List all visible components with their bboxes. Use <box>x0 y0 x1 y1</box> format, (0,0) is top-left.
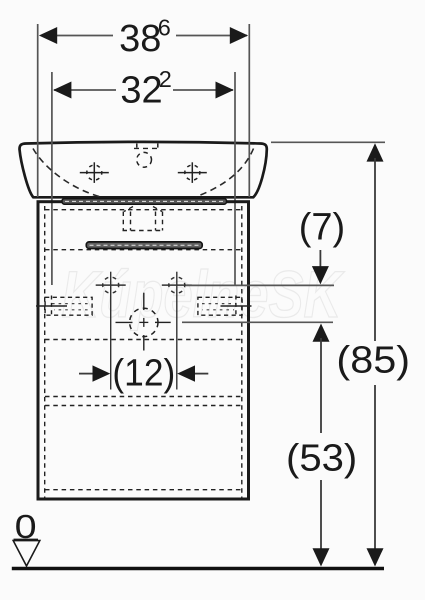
mounting plate left <box>45 297 92 315</box>
dimension (85) <box>367 143 384 161</box>
top drawer handle bar under basin <box>62 199 227 205</box>
basin outline <box>20 142 267 197</box>
svg-text:2: 2 <box>159 66 172 92</box>
dimension (53) lower line <box>320 480 322 564</box>
bowl dashed curve left <box>33 149 100 197</box>
cabinet outline <box>38 202 249 499</box>
big dashed circle (siphon hole) <box>116 293 171 351</box>
dimension (53) <box>313 324 330 342</box>
faucet hole cross left <box>80 162 109 183</box>
right ext line at y285 <box>186 284 334 286</box>
cabinet inner dashed vertical left <box>44 206 46 498</box>
svg-text:(7): (7) <box>299 207 345 249</box>
mounting plate right <box>198 297 242 315</box>
arrow right of 32.2 <box>216 82 234 99</box>
bracket cross left <box>36 305 67 307</box>
faucet hole cross right <box>178 162 207 183</box>
overflow dashed circle <box>137 152 152 167</box>
bracket cross right <box>221 305 252 307</box>
dimension 38.6 extension line left <box>37 24 39 197</box>
cabinet dashed line 2 <box>45 249 242 251</box>
svg-text:38: 38 <box>119 18 161 60</box>
cabinet dashed line 5 <box>45 405 242 407</box>
dimension 38.6 line <box>41 35 113 37</box>
dimension (85) lower line <box>374 385 376 564</box>
bowl dashed curve right <box>196 149 254 197</box>
svg-text:6: 6 <box>158 15 171 41</box>
ground line <box>12 567 384 571</box>
drawer handle bar <box>86 242 202 249</box>
rim tap box ticks <box>136 144 138 148</box>
cabinet dashed shelf line 1 <box>45 209 242 211</box>
dimension (12) <box>79 373 95 375</box>
arrow left of 32.2 <box>53 82 71 99</box>
hole cross right <box>162 272 192 390</box>
dimension 38.6 extension line right <box>248 24 250 197</box>
cabinet dashed line 4 <box>45 396 242 398</box>
svg-text:32: 32 <box>120 70 162 112</box>
datum underline <box>14 539 39 541</box>
dimension (85) top ext line <box>271 141 385 143</box>
right ext line at y322 <box>182 321 333 323</box>
dimension 32.2 extension line left <box>51 72 53 285</box>
svg-text:KúpelneSK: KúpelneSK <box>62 257 345 331</box>
hole cross left <box>96 272 126 390</box>
drain dashed pipe <box>123 207 164 231</box>
rim tap box dashed bottom <box>134 147 161 149</box>
svg-text:(12): (12) <box>112 351 175 393</box>
arrow right of 38.6 <box>230 27 248 44</box>
dimension 32.2 extension line right <box>234 72 236 285</box>
cabinet dashed line 3 <box>45 339 242 341</box>
cabinet dashed line 6 <box>45 489 242 491</box>
dimension 32.2 line <box>54 89 116 91</box>
dimension (7) arrow line <box>319 250 321 281</box>
cabinet inner dashed vertical right <box>241 206 243 498</box>
watermark KupelneSK <box>62 257 345 331</box>
svg-text:(85): (85) <box>336 339 410 381</box>
datum triangle <box>13 541 40 566</box>
arrow left of 38.6 <box>39 27 57 44</box>
svg-text:(53): (53) <box>286 437 357 479</box>
